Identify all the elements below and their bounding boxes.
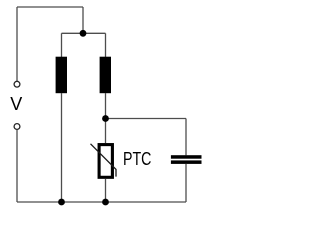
capacitor C1: top plate — [171, 155, 202, 159]
wire: R2 bottom lead down to node C — [105, 93, 107, 119]
wire: bottom rail — [17, 201, 186, 203]
wire: horizontal from node C to capacitor branch — [106, 118, 187, 120]
resistor R1 (left black bar) — [56, 57, 67, 93]
svg-text:PTC: PTC — [123, 149, 151, 169]
wire: PTC bottom lead down to bottom rail — [105, 179, 107, 203]
wire: left vertical from top wire down to + terminal — [16, 7, 18, 81]
wire: node C down to PTC thermistor — [105, 119, 107, 144]
node A junction dot — [80, 30, 87, 37]
PTC thermistor RT1: rectangle body — [99, 145, 112, 178]
voltage source V: bottom terminal circle — [14, 124, 20, 130]
resistor R2 (right black bar) — [100, 57, 111, 93]
wire: right branch down to resistor R2 — [105, 33, 107, 57]
wire: capacitor branch vertical down to top plate — [185, 119, 187, 156]
wire: horizontal bus y=33 between the two branches — [62, 32, 106, 34]
svg-text:V: V — [10, 94, 22, 114]
node D junction dot (PTC to bottom rail) — [102, 199, 109, 206]
PTC thermistor RT1: diagonal stroke with foot — [91, 144, 117, 177]
wire: top horizontal from source to divider — [17, 6, 83, 8]
capacitor C1: bottom plate — [171, 160, 202, 164]
node B junction dot (R1 to bottom rail) — [58, 199, 65, 206]
wire: left vertical from - terminal down to bottom rail — [16, 130, 18, 202]
wire: vertical drop from top wire to junction A — [82, 7, 84, 33]
wire: left branch down to resistor R1 — [61, 33, 63, 57]
wire: capacitor bottom lead down to bottom rail — [185, 164, 187, 202]
node C junction dot (tap to capacitor) — [102, 115, 109, 122]
voltage source V: top terminal circle — [14, 81, 20, 87]
wire: R1 bottom lead down to bottom rail — [61, 93, 63, 202]
